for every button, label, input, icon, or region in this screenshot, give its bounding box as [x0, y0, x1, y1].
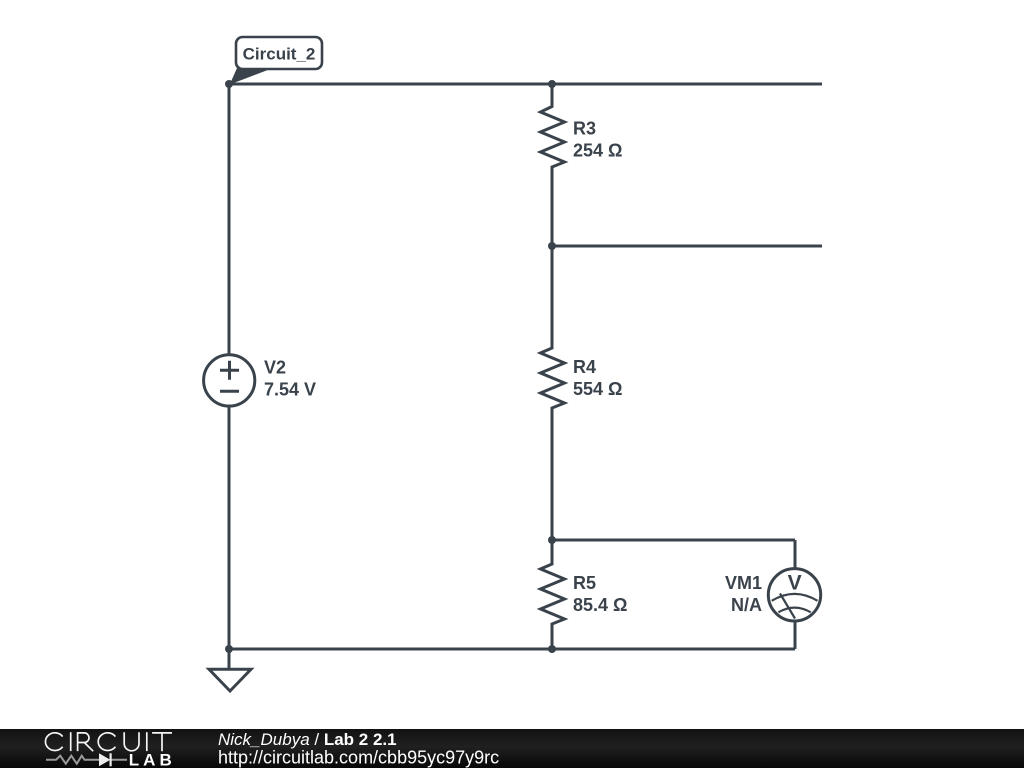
svg-text:V2: V2 [264, 358, 286, 378]
svg-text:R3: R3 [573, 119, 596, 139]
svg-text:R5: R5 [573, 573, 596, 593]
svg-text:V: V [788, 571, 802, 594]
svg-text:VM1: VM1 [725, 573, 762, 593]
svg-text:http://circuitlab.com/cbb95yc9: http://circuitlab.com/cbb95yc97y9rc [218, 748, 499, 768]
svg-text:554 Ω: 554 Ω [573, 379, 622, 399]
svg-text:R4: R4 [573, 357, 596, 377]
svg-text:254 Ω: 254 Ω [573, 141, 622, 161]
svg-text:Nick_Dubya / Lab 2 2.1: Nick_Dubya / Lab 2 2.1 [218, 730, 397, 749]
svg-text:LAB: LAB [129, 750, 176, 768]
svg-text:85.4 Ω: 85.4 Ω [573, 595, 627, 615]
svg-text:7.54 V: 7.54 V [264, 380, 316, 400]
svg-text:N/A: N/A [731, 595, 762, 615]
svg-text:Circuit_2: Circuit_2 [243, 45, 316, 64]
